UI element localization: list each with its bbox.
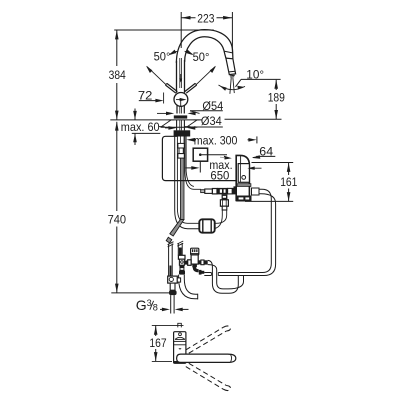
bottom view reference top line (152, 324, 184, 326)
counterweight (199, 219, 214, 232)
label 64 (252, 145, 275, 159)
T piece below chain (220, 194, 228, 210)
label diameter 54 (157, 99, 223, 115)
svg-text:max. 300: max. 300 (194, 133, 238, 147)
svg-text:max. 60: max. 60 (121, 120, 160, 134)
counter bottom line (132, 132, 161, 134)
bottom view spout arm (177, 354, 236, 362)
base dark bar (174, 115, 187, 118)
fitting chain to box (201, 188, 236, 195)
10 degree swing lines under head (219, 78, 246, 94)
svg-text:8: 8 (153, 303, 158, 313)
check valve stack on shank (178, 143, 184, 158)
mounting nut dark (174, 130, 191, 136)
ball joint (174, 93, 188, 107)
box outlet fitting right (252, 188, 276, 208)
svg-text:50°: 50° (193, 50, 210, 64)
label diameter 34 (165, 114, 223, 130)
dimension 72 (138, 89, 164, 104)
control box (234, 155, 262, 201)
svg-text:740: 740 (108, 212, 127, 226)
svg-text:50°: 50° (154, 49, 171, 63)
inner J hose from T foot (179, 275, 198, 300)
label 10 degrees (236, 68, 281, 87)
label max 300 (186, 133, 257, 147)
svg-text:189: 189 (268, 91, 285, 105)
hose stub from solenoid lower port (204, 273, 211, 276)
label max 650 (185, 158, 232, 182)
svg-text:161: 161 (280, 175, 297, 189)
U hose from solenoid right port (208, 260, 244, 293)
svg-text:167: 167 (149, 336, 166, 350)
svg-text:650: 650 (210, 168, 229, 182)
svg-text:384: 384 (109, 68, 126, 82)
label G 3/8 (136, 297, 189, 313)
svg-text:223: 223 (197, 11, 214, 25)
bottom view cylinder (174, 332, 186, 364)
counter top line (110, 119, 202, 121)
lower assembly right pipe (177, 241, 183, 256)
spray head (225, 51, 236, 77)
pullout hose loop from shank (175, 208, 200, 229)
pullout hose tail gray (166, 220, 184, 244)
bottom view small top mark (178, 323, 182, 327)
spout arc outer (176, 30, 233, 63)
dashed swivel arm upper (186, 326, 231, 353)
lower assembly left pipe (168, 242, 174, 277)
dimension 189 right (225, 80, 286, 120)
svg-text:Ø34: Ø34 (201, 114, 222, 128)
escutcheon parallelogram (159, 120, 200, 127)
plug box (193, 148, 232, 172)
dimension 740 left (108, 122, 169, 293)
sensor cable loop (162, 136, 236, 180)
faucet column (177, 58, 185, 93)
hose bundle below nut (175, 137, 186, 220)
dimension max 60 (121, 109, 160, 146)
neck below ball (177, 106, 184, 114)
solenoid valve (185, 248, 208, 274)
svg-text:G: G (136, 297, 147, 313)
shank below counter (177, 120, 185, 130)
spout arc inner (185, 37, 226, 62)
angle valve left column (168, 276, 181, 313)
hose from T to weight (199, 210, 226, 229)
50 degree labels and lines (146, 49, 216, 84)
long pipe from solenoid to control box (218, 206, 275, 276)
dimension 384 left (109, 30, 214, 120)
lever strokes (165, 83, 196, 93)
dimension 161 (245, 163, 298, 202)
dashed swivel arm lower (186, 363, 231, 390)
dimension 167 (149, 326, 172, 362)
supply hose to chain (185, 171, 201, 189)
T fitting on right pipe (178, 255, 185, 274)
dimension 223 top (181, 11, 232, 53)
